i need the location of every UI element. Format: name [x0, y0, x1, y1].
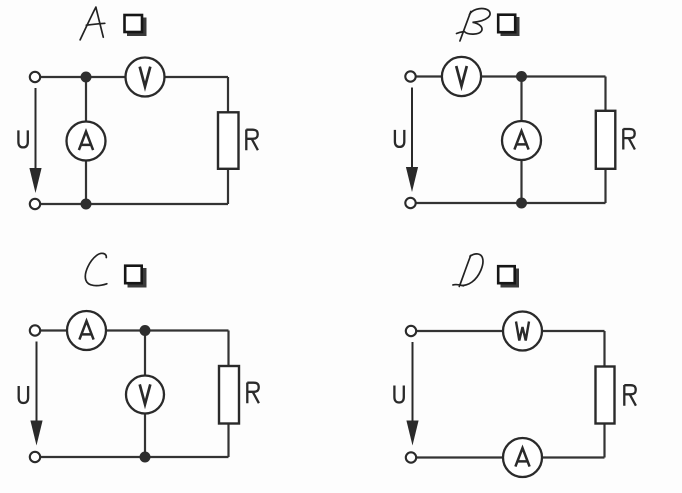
terminal top-left B	[405, 71, 415, 81]
terminal top-left D	[406, 326, 416, 336]
label U (circuit B)	[395, 130, 404, 147]
wire middle branch A	[85, 77, 87, 204]
label U (circuit A)	[18, 130, 27, 147]
wire top D	[416, 330, 604, 332]
label R (circuit D)	[624, 385, 636, 406]
checkbox B	[498, 15, 519, 36]
wire right A	[227, 77, 229, 204]
terminal top-left A	[30, 72, 40, 82]
wattmeter W (circuit D)	[503, 312, 542, 351]
junction top C	[140, 325, 151, 336]
label U (circuit D)	[394, 386, 403, 403]
label R (circuit A)	[246, 130, 258, 151]
wire right C	[227, 331, 229, 458]
label C (handwritten)	[85, 253, 106, 285]
junction bottom A	[81, 199, 92, 210]
wire middle branch B	[520, 77, 522, 204]
terminal bottom-left B	[405, 198, 415, 208]
label A (handwritten)	[80, 7, 105, 40]
label U (circuit C)	[19, 386, 28, 403]
checkbox C	[125, 266, 146, 288]
terminal bottom-left A	[30, 199, 40, 209]
junction bottom B	[516, 198, 527, 209]
voltmeter V (circuit B)	[442, 57, 481, 96]
wire middle branch C	[144, 331, 146, 458]
voltage arrow U (circuit C)	[30, 342, 42, 446]
voltmeter V (circuit A)	[126, 58, 165, 97]
wire bottom A	[40, 203, 228, 205]
terminal top-left C	[30, 325, 40, 335]
wire top A	[40, 76, 228, 78]
label B (handwritten)	[457, 9, 491, 41]
wire bottom B	[416, 202, 606, 204]
label D (handwritten)	[453, 254, 483, 287]
resistor R (circuit D)	[596, 367, 615, 424]
ammeter A (circuit D)	[503, 438, 542, 477]
voltage arrow U (circuit A)	[29, 88, 41, 193]
junction bottom C	[140, 452, 151, 463]
wire bottom D	[416, 456, 604, 458]
wire right B	[604, 77, 606, 204]
resistor R (circuit C)	[219, 366, 239, 424]
resistor R (circuit B)	[596, 111, 616, 169]
terminal bottom-left D	[406, 452, 416, 462]
wire top C	[40, 329, 228, 331]
resistor R (circuit A)	[218, 112, 239, 169]
wire right D	[603, 331, 605, 458]
ammeter A (circuit A)	[67, 122, 106, 161]
terminal bottom-left C	[30, 452, 40, 462]
ammeter A (circuit B)	[502, 121, 541, 160]
voltmeter V (circuit C)	[126, 376, 164, 414]
wire bottom C	[40, 456, 228, 458]
label R (circuit B)	[623, 129, 635, 150]
junction top A	[81, 72, 92, 83]
label R (circuit C)	[247, 383, 259, 404]
wire top B	[416, 75, 606, 77]
checkbox A	[125, 15, 147, 36]
checkbox D	[498, 266, 519, 287]
voltage arrow U (circuit B)	[406, 88, 418, 193]
ammeter A (circuit C)	[67, 311, 106, 350]
junction top B	[516, 71, 527, 82]
voltage arrow U (circuit D)	[406, 342, 418, 446]
